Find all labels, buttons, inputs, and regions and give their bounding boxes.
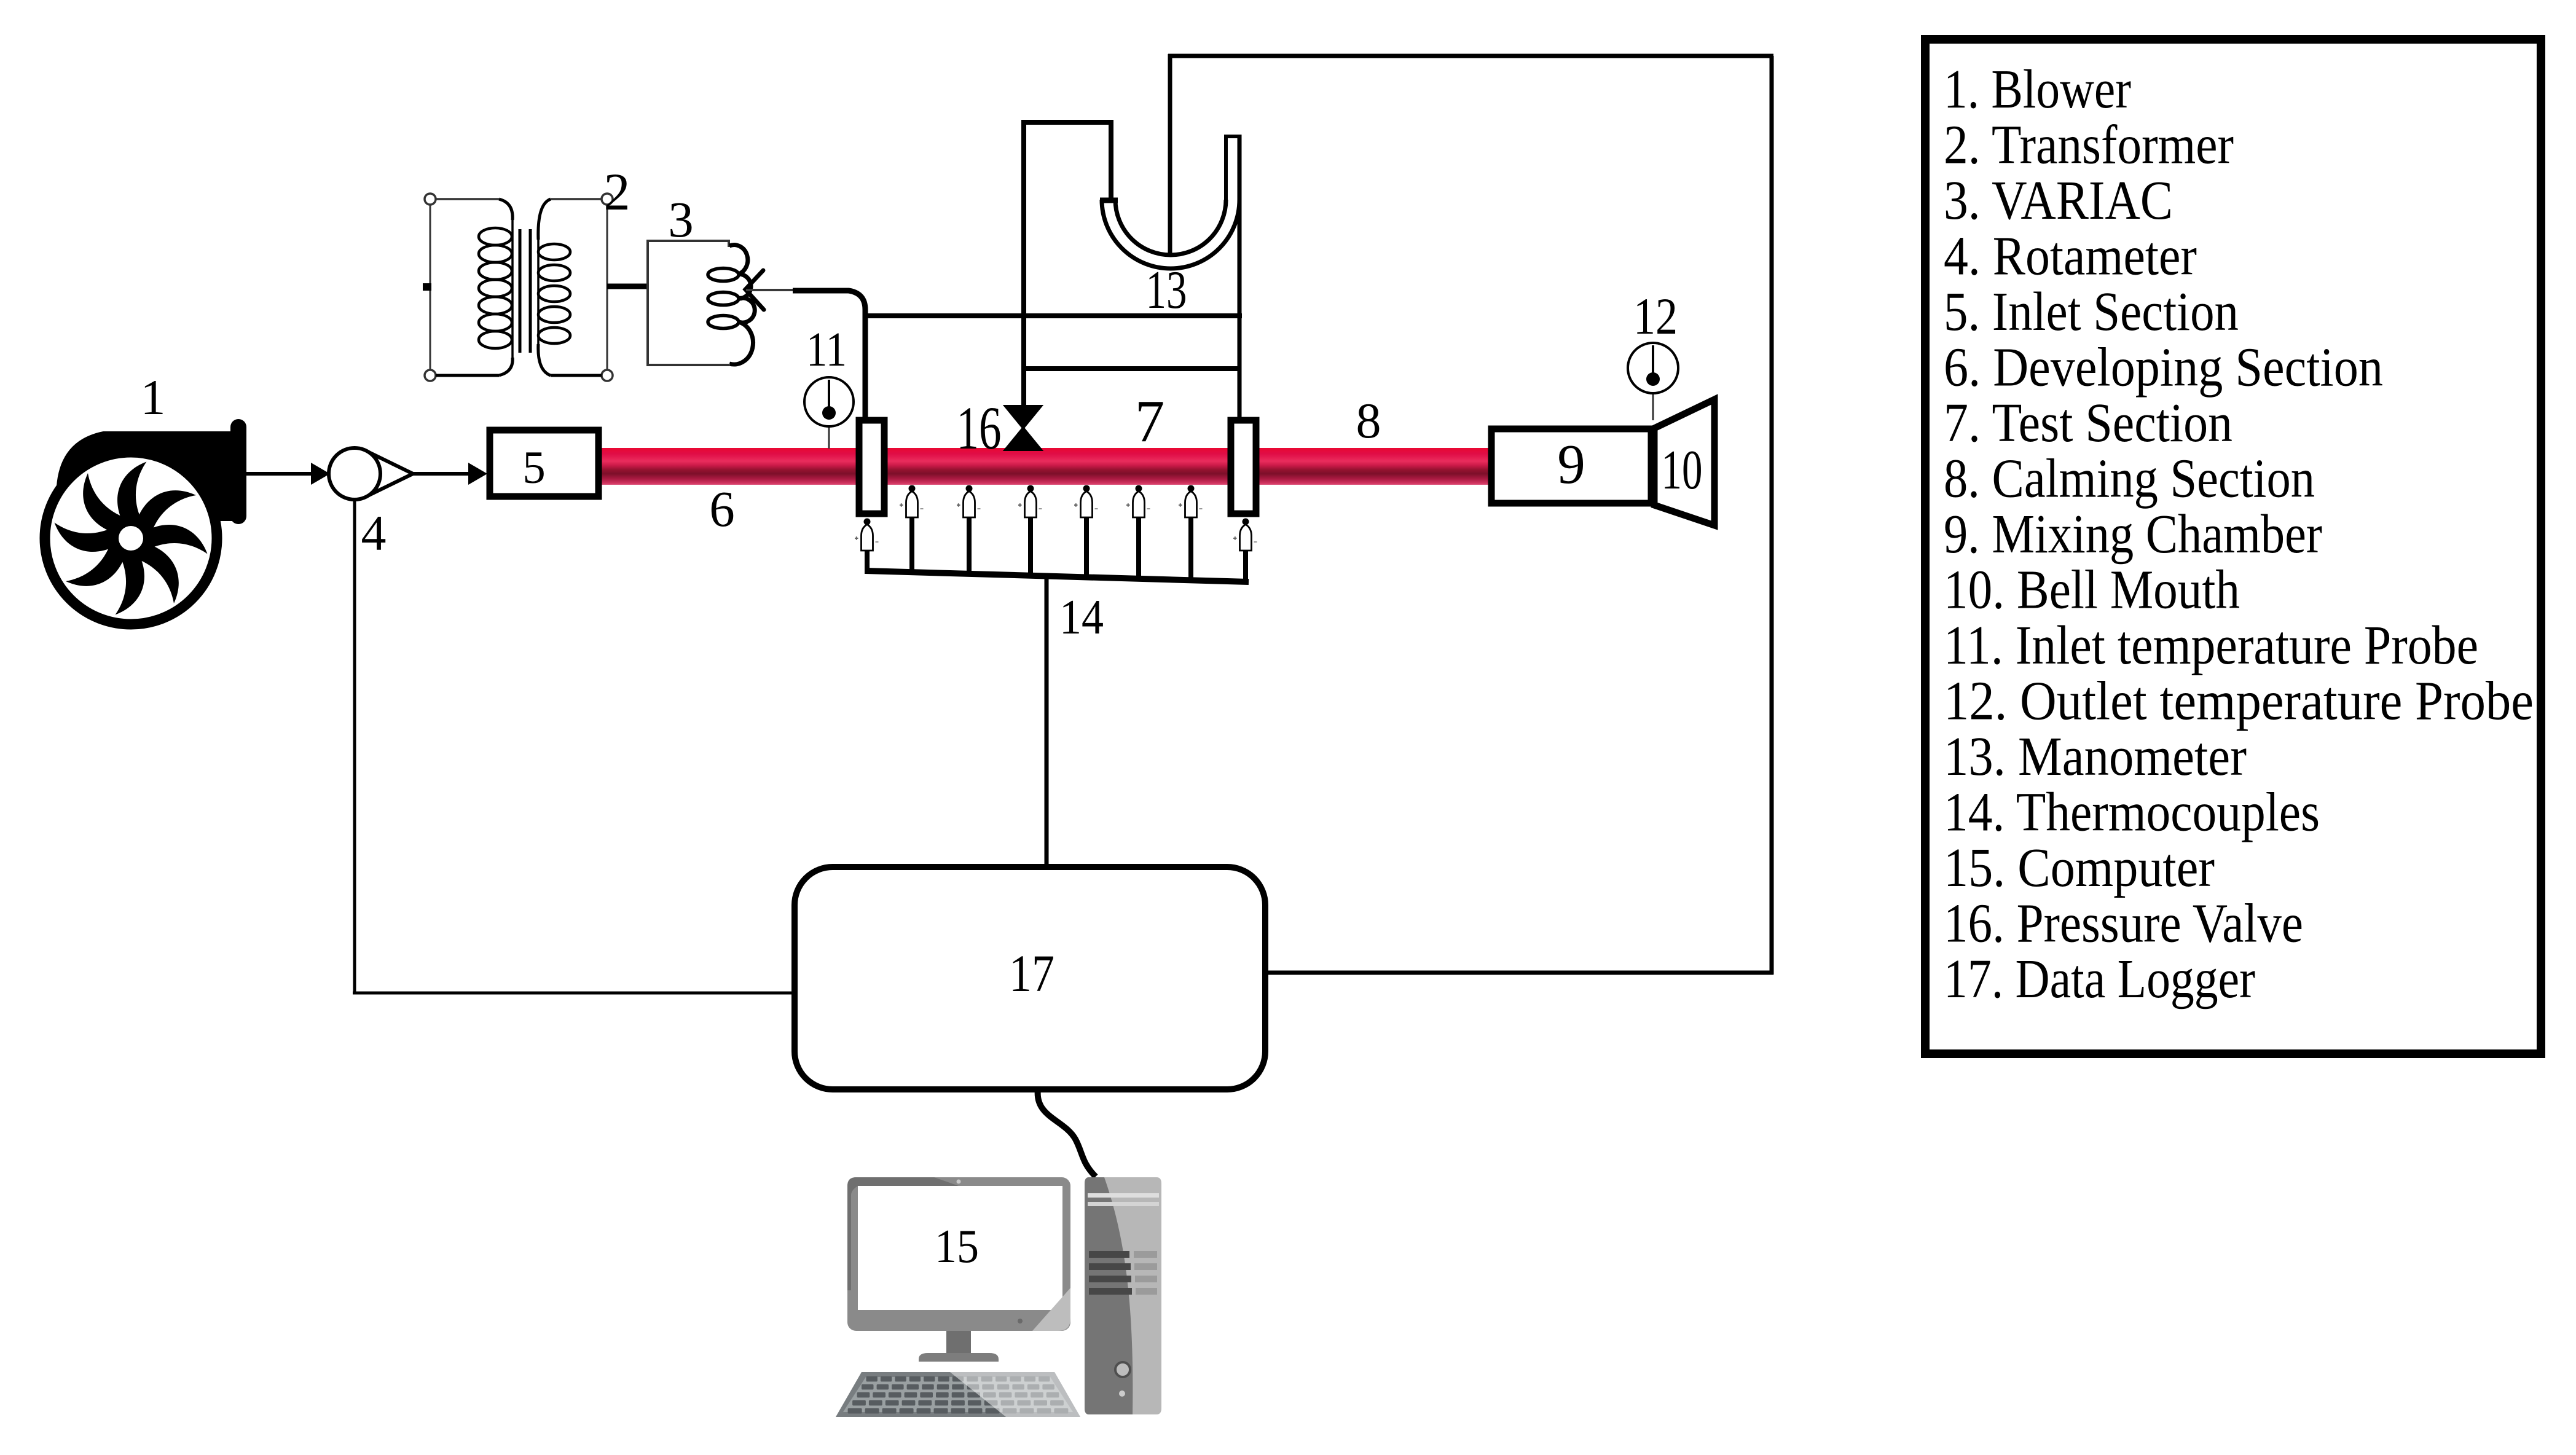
manometer 13 left arm	[1109, 122, 1113, 201]
svg-text:11: 11	[806, 323, 847, 377]
computer 15 tower body	[1085, 1177, 1161, 1414]
bell mouth 10	[1654, 399, 1714, 525]
wire valve to manometer left arm	[1024, 122, 1113, 407]
blower 1 fan rim	[45, 452, 217, 624]
monitor frame top-left darker	[847, 1177, 959, 1290]
svg-text:8: 8	[1356, 393, 1381, 449]
wire transformer to variac	[607, 284, 649, 289]
wire blower to rotameter	[246, 472, 312, 476]
blower 1 fan blades	[51, 458, 211, 618]
monitor stand base	[919, 1353, 999, 1362]
secondary coil loops	[538, 244, 570, 343]
svg-text:12. Outlet temperature Probe: 12. Outlet temperature Probe	[1944, 671, 2534, 732]
variac 3 winding bumps	[729, 245, 755, 364]
blower 1 fan hub	[106, 514, 155, 563]
wiper contact line	[746, 289, 795, 291]
manometer 13 U-bend inner arc	[1115, 200, 1226, 255]
thermocouple probe right end	[1233, 519, 1257, 551]
svg-text:8. Calming Section: 8. Calming Section	[1944, 449, 2315, 509]
transformer 2 core lines	[519, 229, 522, 353]
arrowhead into inlet section	[468, 463, 487, 485]
tower top stripes	[1088, 1193, 1159, 1198]
wire bottom-right to secondary	[551, 374, 602, 377]
manometer 13 center dip tube	[1168, 54, 1172, 255]
svg-text:6. Developing Section: 6. Developing Section	[1944, 337, 2383, 398]
svg-text:1: 1	[141, 369, 166, 425]
PIPES	[599, 448, 1491, 485]
tower vents light	[1134, 1251, 1157, 1295]
COMPUTER	[836, 1177, 1161, 1417]
svg-text:17. Data Logger: 17. Data Logger	[1944, 949, 2255, 1010]
variac 3 wiper arrow	[745, 270, 764, 310]
inlet temperature probe 11 dial	[804, 377, 854, 426]
thermocouple lead to data logger	[1045, 575, 1049, 868]
thermocouple probe d	[1074, 485, 1098, 518]
svg-text:14: 14	[1059, 590, 1104, 645]
svg-text:16. Pressure Valve: 16. Pressure Valve	[1944, 893, 2303, 954]
manometer 13 right arm cap	[1224, 135, 1241, 138]
monitor screen	[858, 1186, 1062, 1310]
wire variac to heater, corner down	[793, 291, 865, 418]
transformer 2 bottom-left terminal	[425, 370, 436, 381]
svg-text:15: 15	[935, 1220, 979, 1273]
svg-text:9. Mixing Chamber: 9. Mixing Chamber	[1944, 504, 2322, 565]
junction tick on left wire	[423, 283, 431, 291]
thermocouple probe left end	[855, 519, 879, 551]
thermocouple probe c	[1018, 485, 1042, 518]
thermocouple probe e	[1126, 485, 1150, 518]
usb cable to computer	[1038, 1089, 1096, 1177]
heater bus wire top	[863, 313, 1242, 318]
secondary coil lead-in bends	[538, 199, 551, 375]
wire bottom-left to primary	[436, 374, 499, 377]
svg-text:4: 4	[361, 505, 387, 561]
heater bus wire lower	[1022, 366, 1239, 371]
transformer 2 top-left terminal	[425, 194, 436, 205]
pressure valve 16	[1005, 406, 1041, 450]
svg-text:5: 5	[522, 442, 546, 493]
svg-text:10. Bell Mouth: 10. Bell Mouth	[1944, 560, 2240, 621]
DATALOGGER	[795, 867, 1265, 1177]
svg-text:2. Transformer: 2. Transformer	[1944, 115, 2234, 176]
transformer 2 bottom-right terminal	[602, 370, 613, 381]
test section right flange	[1231, 420, 1256, 514]
svg-text:17: 17	[1009, 944, 1054, 1003]
blower 1 housing scroll	[57, 431, 234, 548]
monitor camera dot	[957, 1180, 961, 1184]
svg-text:3. VARIAC: 3. VARIAC	[1944, 170, 2173, 231]
svg-text:9: 9	[1557, 433, 1585, 495]
manometer 13 right arm outer wall down to flange	[1238, 135, 1242, 418]
svg-text:2: 2	[604, 162, 630, 221]
wire left vertical	[430, 205, 431, 370]
rotameter 4 cone	[366, 451, 413, 496]
tower vents dark	[1089, 1251, 1132, 1295]
wire right vertical	[607, 205, 608, 370]
monitor bezel glare	[1032, 1288, 1070, 1331]
svg-text:11. Inlet temperature Probe: 11. Inlet temperature Probe	[1944, 615, 2478, 676]
wire top-right to secondary	[551, 198, 602, 200]
svg-text:1. Blower: 1. Blower	[1944, 59, 2131, 120]
MANOMETER	[1005, 54, 1773, 975]
svg-text:13: 13	[1146, 261, 1187, 320]
test section left flange	[859, 420, 884, 514]
legend box	[1925, 39, 2541, 1054]
monitor stand neck	[946, 1331, 971, 1354]
inlet section box 5	[490, 430, 599, 496]
variac 3 winding loops	[708, 269, 739, 329]
svg-text:7: 7	[1135, 388, 1165, 454]
wire manometer top run	[1168, 54, 1773, 58]
thermocouple 14 collector bus	[866, 571, 1249, 582]
svg-text:3: 3	[668, 191, 694, 248]
manometer 13 left cap	[1100, 198, 1118, 203]
wire top-left to primary	[436, 198, 499, 200]
VARIAC	[648, 241, 1242, 418]
arrowhead into rotameter	[311, 463, 330, 485]
developing section pipe 6	[599, 448, 857, 485]
transformer 2 top-right terminal	[602, 194, 613, 205]
svg-text:16: 16	[957, 394, 1002, 462]
thermocouple probe a	[900, 485, 924, 518]
svg-text:5. Inlet Section: 5. Inlet Section	[1944, 281, 2239, 342]
svg-text:13. Manometer: 13. Manometer	[1944, 726, 2247, 787]
outlet temperature probe 12 dial	[1628, 343, 1678, 393]
wire rotameter to data logger	[353, 992, 795, 995]
thermocouple probe f	[1179, 485, 1203, 518]
rotameter 4 float circle	[329, 448, 380, 500]
manometer 13 right arm inner wall	[1224, 136, 1228, 200]
mixing chamber 9	[1491, 429, 1651, 503]
legend text	[1944, 59, 2534, 1010]
svg-text:12: 12	[1633, 288, 1678, 345]
monitor 15 frame	[847, 1177, 1070, 1331]
data logger 17 box	[795, 867, 1265, 1089]
computer 15 tower shade	[1085, 1177, 1133, 1414]
wire to data logger right	[1263, 971, 1773, 975]
RIGHTSIDE	[0, 0, 1, 1]
keyboard glare	[950, 1372, 1080, 1417]
blower 1 outlet flange	[230, 419, 246, 524]
secondary coil spine	[537, 238, 540, 345]
BLOWER	[45, 419, 795, 994]
wire rotameter to inlet section	[413, 472, 469, 476]
variac 3 box	[648, 241, 729, 365]
svg-text:10: 10	[1662, 439, 1703, 501]
calming section pipe 8	[1257, 448, 1491, 485]
wire rotameter down	[353, 500, 356, 994]
svg-text:6: 6	[709, 480, 735, 537]
LEGEND	[1925, 39, 2541, 1054]
svg-text:7. Test Section: 7. Test Section	[1944, 393, 2232, 453]
primary coil spine	[511, 218, 514, 359]
primary coil lead-in bends	[499, 199, 512, 375]
thermocouple probe b	[957, 485, 981, 518]
wire right down run	[1770, 56, 1774, 975]
outlet temperature probe 12 stem	[1652, 393, 1654, 420]
inlet temperature probe 11 stem	[828, 426, 830, 449]
manometer 13 U-bend outer arc	[1102, 200, 1239, 269]
monitor bezel dots	[1018, 1319, 1023, 1324]
tower power button	[1115, 1362, 1130, 1377]
TESTSECTION	[804, 343, 1714, 525]
test section pipe 7	[884, 448, 1230, 485]
primary coil loops	[479, 228, 512, 348]
TRANSFORMER	[423, 194, 649, 381]
svg-text:14. Thermocouples: 14. Thermocouples	[1944, 782, 2320, 843]
keyboard 15 body	[836, 1372, 1080, 1417]
svg-text:15. Computer: 15. Computer	[1944, 837, 2215, 898]
svg-text:4. Rotameter: 4. Rotameter	[1944, 226, 2197, 287]
